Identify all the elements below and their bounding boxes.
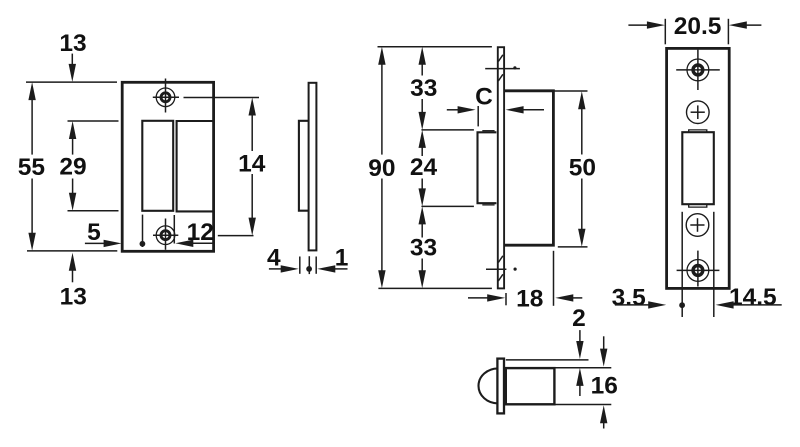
dimension 5 arrow [85, 242, 106, 244]
bottom hole crosshair vertical [165, 219, 167, 250]
bottom extension leader (plate bottom) [27, 250, 117, 252]
bottom hole crosshair [677, 269, 720, 271]
C extension line [477, 106, 479, 126]
leader bottom hole to 14 dim [218, 235, 254, 237]
upper small hole [687, 101, 710, 124]
dimension 14.5 arrow [732, 304, 782, 306]
dimension 18 right arrow [571, 297, 582, 299]
section plate outline [498, 47, 504, 288]
hatch marks bottom [498, 256, 503, 263]
leader top hole to 14 dim [184, 97, 260, 99]
bottom screw hole outer circle [687, 260, 709, 282]
plate outline [122, 82, 213, 251]
dot terminator 5 dim [140, 241, 146, 247]
window top tab [689, 130, 707, 132]
side plate [309, 83, 317, 251]
20.5 right arrow [745, 24, 762, 26]
bottom hole centerline [486, 268, 506, 270]
svg-text:24: 24 [410, 154, 438, 181]
svg-text:33: 33 [410, 75, 437, 102]
top hole crosshair [676, 69, 720, 71]
dimension 13 bottom arrow [69, 253, 76, 271]
svg-text:33: 33 [410, 234, 437, 261]
dimension 3.5 arrow [615, 304, 651, 306]
svg-text:50: 50 [569, 154, 596, 181]
lip top tab [482, 130, 494, 132]
left cutout [142, 121, 173, 211]
18 extension line right [553, 251, 555, 306]
dimension 1 arrow [333, 268, 348, 270]
dimension 12 arrow [192, 242, 213, 244]
top extension leader [378, 46, 492, 48]
dimension 4 arrow [269, 268, 283, 270]
dimension 33 top line [421, 60, 423, 76]
svg-text:90: 90 [368, 155, 395, 182]
nose arc [479, 368, 499, 403]
dimension 90 line [381, 60, 383, 155]
svg-text:55: 55 [18, 154, 45, 181]
extension line window right [713, 212, 715, 317]
bottom extension leader [378, 287, 492, 289]
svg-text:13: 13 [59, 30, 86, 57]
box top leader for 50 [553, 90, 587, 92]
29 top leader [68, 120, 119, 122]
top hole crosshair vertical [165, 79, 167, 113]
svg-text:29: 29 [59, 154, 86, 181]
box bottom leader for 50 [558, 246, 588, 248]
center extension line through dot [308, 256, 310, 274]
dimension 2 down arrow [579, 330, 581, 345]
20.5 extension line right [727, 19, 729, 45]
dimension 16 up arrow [600, 405, 607, 423]
dimension 33 bottom line [421, 219, 423, 238]
window bottom tab [689, 204, 707, 207]
dimension 29 line [72, 133, 74, 155]
bottom hole crosshair horizontal [153, 234, 178, 236]
bolt bottom extension line [555, 404, 612, 406]
svg-text:4: 4 [267, 245, 281, 272]
dot terminator 3.5 dim [679, 302, 685, 308]
top hole centerline [485, 68, 520, 70]
extension line 1 dim [315, 257, 317, 274]
bolt top extension line [555, 367, 612, 369]
lip bottom tab [482, 204, 494, 206]
top extension leader (plate top) [26, 81, 117, 83]
svg-text:3.5: 3.5 [612, 284, 646, 311]
20.5 extension line left [664, 19, 666, 45]
svg-text:1: 1 [335, 245, 349, 272]
C left arrow [447, 109, 460, 111]
extension line window left [681, 212, 683, 317]
right cutout (open to plate right edge) [177, 121, 213, 211]
20.5 left arrow [628, 24, 649, 26]
bottom screw hole outer circle [156, 226, 175, 245]
svg-text:20.5: 20.5 [674, 13, 722, 40]
svg-text:13: 13 [60, 284, 87, 311]
latch window [682, 132, 714, 204]
svg-text:2: 2 [572, 305, 586, 332]
bottom screw hole bold ring [161, 231, 170, 240]
dimension 14 line [251, 110, 253, 151]
dimension 13 top arrow [71, 54, 73, 67]
top screw hole bold ring [161, 93, 170, 102]
top hole crosshair horizontal [153, 96, 179, 98]
C right arrow [522, 109, 545, 111]
side lip box (open right) [299, 121, 309, 211]
svg-text:16: 16 [591, 373, 618, 400]
svg-text:14: 14 [238, 150, 266, 177]
dot terminator between 4 and 1 [306, 266, 312, 272]
strike box (open left) [505, 91, 554, 245]
extension line 4 dim [299, 257, 301, 274]
dimension 24 line [421, 143, 423, 157]
top screw hole outer circle [687, 59, 709, 81]
svg-text:5: 5 [87, 219, 101, 246]
dimension 2 up arrow [576, 368, 583, 386]
lower small hole [686, 214, 709, 237]
extension line for 5 dim with dot [142, 215, 144, 247]
bottom screw hole bold ring [693, 266, 703, 276]
leader 24 bottom [421, 205, 474, 207]
top screw hole outer circle [156, 88, 175, 107]
leader 24 top [421, 129, 474, 131]
dimension 16 down arrow [603, 336, 605, 352]
hatch marks top [498, 55, 503, 62]
18 extension line left [505, 293, 507, 305]
extension line for 12 dim [173, 215, 175, 244]
svg-text:18: 18 [516, 285, 543, 312]
29 bottom leader [68, 210, 119, 212]
narrow plate outline [667, 48, 730, 288]
flange top extension line [506, 359, 589, 361]
top screw hole bold ring [693, 65, 703, 75]
dimension 55 line [31, 95, 33, 155]
dimension 50 line [581, 104, 583, 155]
bolt body [506, 368, 555, 404]
dimension 18 left arrow [468, 297, 490, 299]
flange [497, 359, 504, 414]
lip plate (open right) [478, 132, 497, 203]
svg-text:14.5: 14.5 [729, 284, 777, 311]
